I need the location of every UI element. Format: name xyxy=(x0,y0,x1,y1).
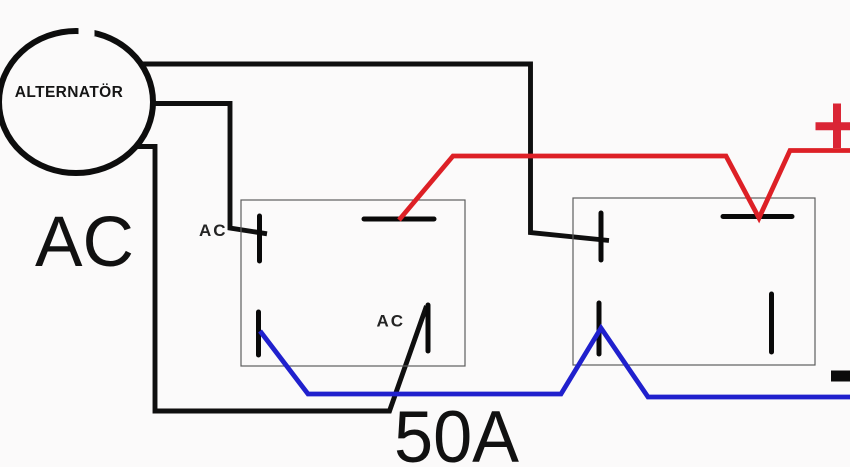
B1 terminal + top-right xyxy=(364,217,434,222)
wire blue: B1 - output to B2 - and battery - xyxy=(260,328,850,397)
svg-text:AC: AC xyxy=(377,312,406,331)
wire top: alternator to rectifier 2 AC input xyxy=(142,64,609,241)
rectifier B2 box xyxy=(573,198,815,365)
B2 terminal + top-right xyxy=(723,214,792,219)
svg-text:AC: AC xyxy=(35,203,134,282)
svg-text:50A: 50A xyxy=(394,397,519,467)
B2 terminal bottom-right xyxy=(769,294,774,352)
battery + symbol xyxy=(816,104,850,149)
battery - symbol xyxy=(831,371,850,382)
wire red: B1 + output to B2 + and battery + xyxy=(399,151,850,221)
B1 terminal AC top-left xyxy=(257,216,262,261)
svg-text:AC: AC xyxy=(199,221,228,240)
alternator G1 xyxy=(0,26,153,173)
B1 terminal AC bottom-right xyxy=(426,305,431,351)
B2 terminal - bottom-left xyxy=(597,303,602,354)
wire mid: alternator to rectifier 1 AC input xyxy=(151,104,267,234)
B2 terminal AC top-left xyxy=(599,213,604,260)
svg-text:ALTERNATÖR: ALTERNATÖR xyxy=(15,84,123,101)
rectifier B1 box xyxy=(241,200,465,366)
B1 terminal - bottom-left xyxy=(256,312,261,355)
wire bottom: alternator to rectifier 1 lower-right AC terminal (50A) xyxy=(138,147,427,412)
